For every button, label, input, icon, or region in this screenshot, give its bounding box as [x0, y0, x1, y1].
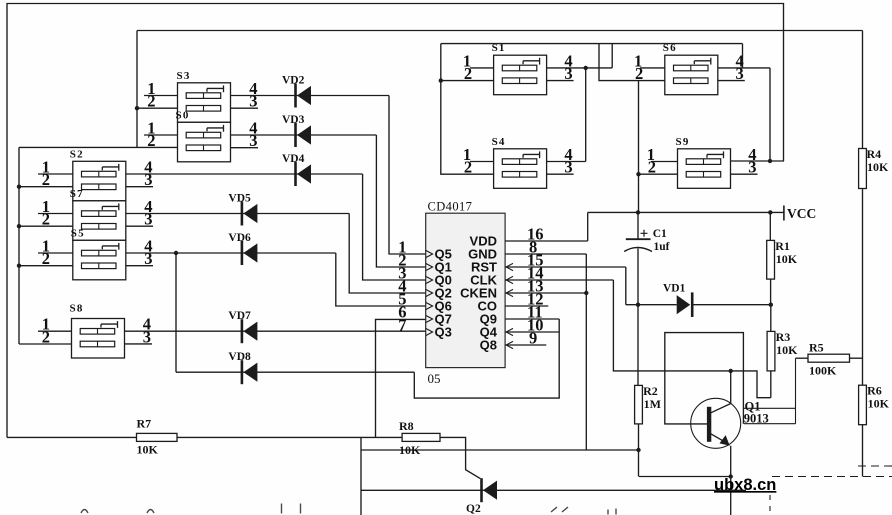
wire IC pin6 (Q7) down to R8 node: [376, 319, 426, 437]
svg-text:05: 05: [428, 371, 441, 386]
wire rail tap down to S6 pin4 row: [742, 44, 744, 68]
wire S9 pin1 stub: [651, 161, 678, 163]
svg-text:2: 2: [42, 170, 50, 189]
svg-text:VD3: VD3: [282, 114, 305, 126]
svg-text:1M: 1M: [644, 397, 661, 411]
wire down to S4 pin4: [585, 68, 587, 162]
wire IC pin10 (Q4): [505, 331, 559, 333]
svg-text:C1: C1: [653, 228, 667, 240]
wire R4 bottom to R5/R6 node: [862, 189, 864, 386]
wire pin16 VDD: [505, 240, 588, 242]
pin 3 arrow and label Q0: [426, 276, 433, 283]
wire reset node to VD1 anode: [626, 304, 677, 306]
switch S7: [73, 201, 126, 241]
wire R7 to R8: [177, 436, 402, 438]
svg-text:Q8: Q8: [480, 337, 497, 352]
junction R1 / VCC rail: [768, 210, 772, 214]
svg-text:10K: 10K: [776, 343, 798, 357]
svg-text:VD2: VD2: [282, 75, 305, 87]
wire R1 bottom: [770, 279, 772, 305]
wire pin12 CO stub: [505, 305, 548, 307]
wire S0 pin3 stub: [231, 147, 259, 149]
wire S4 pin1 stub: [470, 161, 494, 163]
junction S7 pin2 / left rail: [17, 224, 21, 228]
diode VD4: [296, 162, 312, 186]
wire S0 pin1 stub: [144, 134, 178, 136]
resistor R7: [137, 433, 178, 441]
svg-text:10K: 10K: [868, 397, 890, 411]
svg-text:VD1: VD1: [663, 283, 686, 295]
wire VD1 cathode to R1/R3 node: [692, 304, 771, 306]
junction S1 pin2 / rail: [439, 78, 443, 82]
wire Q1 emitter down: [730, 446, 732, 515]
junction S6/S9 pin4: [768, 159, 772, 163]
pin 2 arrow and label Q1: [426, 263, 433, 270]
wire S0 pin2 row to left rail: [19, 146, 178, 148]
resistor R5: [808, 354, 850, 362]
svg-text:S5: S5: [71, 227, 85, 239]
wire S6 pin3 stub: [718, 80, 745, 82]
wire rail y=43.6 over S1..S6: [441, 43, 743, 45]
junction CKEN / GND column: [584, 291, 588, 295]
svg-text:VD4: VD4: [282, 153, 305, 165]
svg-text:S3: S3: [177, 70, 191, 82]
wire R4 top: [862, 31, 864, 149]
wire S7 pin4 to VD5 to corner: [126, 213, 349, 215]
svg-text:R1: R1: [775, 239, 790, 253]
svg-text:100K: 100K: [809, 364, 837, 378]
svg-text:2: 2: [42, 249, 50, 268]
wire R6 bottom: [862, 425, 864, 477]
svg-text:Q2: Q2: [466, 503, 481, 515]
wire pin15 RST: [505, 266, 626, 268]
wire reset node down to R2: [637, 305, 639, 386]
svg-text:S7: S7: [70, 188, 84, 200]
wire S3 pin3 stub: [231, 107, 259, 109]
wire VD6 net down to IC pin5: [336, 253, 426, 306]
diode VD3: [296, 123, 312, 147]
svg-text:R7: R7: [137, 417, 152, 431]
pin 7 arrow and label Q3: [426, 328, 433, 335]
wire label box around 9013: [744, 358, 796, 424]
svg-text:10K: 10K: [776, 252, 798, 266]
wire tap down to bottom rail and off-page: [360, 437, 362, 515]
switch S6: [665, 55, 718, 94]
pin 4 arrow and label Q2: [426, 289, 433, 296]
resistor R3: [767, 331, 775, 371]
switch S5: [73, 240, 126, 279]
wire column S6 pin2 down to VCC rail: [638, 81, 640, 213]
svg-text:10K: 10K: [137, 443, 159, 457]
resistor R8: [402, 433, 440, 441]
wire VD3 net down to IC pin2: [376, 135, 425, 267]
wire S2 pin4 to VD4 to corner: [126, 173, 363, 175]
wire S8 pin1 stub: [38, 330, 72, 332]
svg-text:VD6: VD6: [228, 232, 251, 244]
wire S9 pin2: [639, 173, 678, 175]
svg-text:R3: R3: [776, 330, 791, 344]
svg-text:R5: R5: [809, 341, 824, 355]
svg-text:2: 2: [147, 92, 155, 111]
svg-text:10K: 10K: [399, 443, 421, 457]
svg-text:VD5: VD5: [228, 193, 251, 205]
wire S5 pin1 stub: [38, 252, 73, 254]
wire left rail x=19: [18, 147, 20, 344]
switch S0: [178, 122, 231, 162]
wire R3 bottom: [770, 371, 772, 398]
wire Q1 base feedback loop: [665, 333, 744, 424]
wire Q1 collector up to CLK/R3 net: [730, 371, 732, 404]
wire pin13 CKEN to GND column: [505, 292, 586, 294]
wire dashed fragment near right edge: [858, 465, 892, 467]
svg-text:7: 7: [398, 316, 406, 335]
junction S5 pin2 / left rail: [17, 264, 21, 268]
svg-text:VCC: VCC: [787, 206, 816, 221]
wire S6 pin4: [718, 67, 770, 69]
wire rail down to S6 pin2: [599, 44, 665, 81]
svg-text:10K: 10K: [867, 160, 889, 174]
wire dashed rail to R6 column and page edge: [772, 476, 892, 478]
wire C1 top: [637, 212, 639, 239]
diode VD1: [677, 292, 693, 317]
svg-text:CD4017: CD4017: [428, 200, 473, 214]
junction emitter / gnd rail: [729, 474, 733, 478]
switch S4: [494, 149, 547, 189]
pin input arrow: [506, 276, 513, 283]
junction S3 pin2 / x137: [135, 106, 139, 110]
wire border to R7: [7, 436, 137, 438]
svg-text:2: 2: [147, 131, 155, 150]
diode Q2: [482, 478, 498, 502]
wire VD8 row: [176, 371, 414, 373]
junction reset node: [636, 303, 640, 307]
svg-text:Q3: Q3: [435, 324, 452, 339]
wire S5 pin2: [19, 265, 73, 267]
svg-text:1uf: 1uf: [654, 241, 670, 253]
wire S8 pin4 through VD7 to IC pin7: [125, 330, 426, 332]
wire S3 pin4 to VD2 to corner: [231, 95, 390, 97]
svg-text:R8: R8: [399, 419, 414, 433]
pin 1 arrow and label Q5: [426, 250, 433, 257]
junction C1 / VCC rail: [636, 210, 640, 214]
wire vertical x=137: [136, 31, 138, 148]
junction R1/R3 node: [769, 303, 773, 307]
wire S1 pin3 stub: [547, 80, 574, 82]
switch S3: [178, 83, 231, 123]
VCC symbol: [784, 206, 816, 222]
wire S1 pin2: [441, 80, 494, 82]
wire S9 pin3 stub: [731, 173, 758, 175]
diode VD6: [242, 241, 258, 265]
wire top rail to R4: [137, 30, 863, 32]
wire S8 pin2: [19, 343, 72, 345]
transistor Q1 9013: [691, 398, 741, 448]
wire S5 pin3 stub: [126, 265, 153, 267]
svg-text:S4: S4: [492, 136, 506, 148]
wire S7 pin1 stub: [38, 213, 73, 215]
switch S2: [73, 161, 126, 201]
wire VD2 net down to IC pin1: [389, 96, 426, 255]
switch S8: [72, 319, 125, 359]
wire pin9 Q8 stub: [505, 344, 546, 346]
switch S1: [494, 55, 547, 94]
wire GND column down: [585, 254, 587, 450]
svg-text:R6: R6: [867, 384, 882, 398]
pin input arrow: [506, 289, 513, 296]
wire S8 pin3 stub: [125, 343, 153, 345]
svg-text:ubx8.cn: ubx8.cn: [714, 476, 776, 494]
resistor R6: [859, 385, 867, 425]
wire S2 pin3 stub: [126, 186, 153, 188]
junction R2 bottom / GND link: [636, 448, 640, 452]
wire S6 pin1 stub: [640, 67, 665, 69]
wire S3 pin1 stub: [144, 95, 178, 97]
resistor R4: [859, 149, 867, 189]
wire VD4 net down to IC pin3: [363, 174, 426, 280]
wire S1/S4 pin2 rail down to S4: [441, 44, 494, 175]
wire S1 pin1 stub: [470, 67, 494, 69]
wire RST down to reset node: [625, 267, 627, 305]
junction S5 pin4 / VD8 branch: [174, 251, 178, 255]
wire R3 top: [770, 305, 772, 332]
svg-text:VD8: VD8: [228, 351, 251, 363]
wire dashed fragment below watermark: [769, 495, 771, 515]
pin input arrow: [506, 328, 513, 335]
wire bottom rail with Q2: [361, 489, 746, 491]
diode VD2: [296, 84, 312, 108]
wire GND link across (through R8 value label): [361, 449, 639, 451]
wire S9 pin4: [731, 160, 785, 162]
svg-text:2: 2: [42, 327, 50, 346]
resistor R1: [767, 240, 775, 279]
wire VDD up to VCC rail: [587, 212, 589, 241]
wire S1 pin4 up to rail: [611, 44, 613, 68]
wire C1 bottom to reset node: [637, 249, 639, 305]
svg-text:S9: S9: [676, 136, 690, 148]
svg-text:S2: S2: [70, 148, 84, 160]
wire S4 pin3 stub: [547, 173, 574, 175]
wire S2 pin2: [19, 186, 73, 188]
junction S9 pin2 / column: [636, 172, 640, 176]
resistor R2: [635, 385, 643, 424]
pin 6 arrow and label Q7: [426, 315, 433, 322]
diode VD7: [242, 319, 258, 343]
wire S5 pin4 to VD6 to corner: [126, 252, 336, 254]
wire S4 pin4: [547, 161, 586, 163]
wire IC pin11 (Q9): [505, 318, 559, 320]
switch S9: [678, 149, 731, 189]
svg-text:R4: R4: [867, 147, 882, 161]
wire VD8 branch down: [175, 253, 177, 372]
svg-text:S8: S8: [70, 303, 84, 315]
wire R2-bottom rail right: [639, 476, 731, 478]
wire VCC rail: [588, 211, 784, 213]
wire S0 pin4 to VD3 to corner: [231, 134, 377, 136]
wire S3 pin2: [137, 107, 178, 109]
IC U1 CD4017 body: [426, 213, 505, 367]
wire S7 pin3 stub: [126, 225, 153, 227]
wire R8 right drop to Q2: [440, 437, 480, 478]
svg-text:R2: R2: [643, 384, 658, 398]
diode VD5: [242, 202, 258, 226]
wire R5 left: [796, 357, 809, 359]
wire CLK net to R3 bottom: [613, 280, 770, 398]
pin input arrow: [506, 263, 513, 270]
pin 5 arrow and label Q6: [426, 302, 433, 309]
wire VD5 net down to IC pin4: [349, 214, 426, 294]
wire S6 pin4 down to S9 pin4: [769, 68, 771, 161]
junction collector / CLK net: [729, 369, 733, 373]
wire R5 right to R4/R6 column: [850, 357, 863, 359]
wire pin8 GND: [505, 253, 586, 255]
wire border net (S-matrix common, top/left loop): [7, 4, 784, 438]
cut-off glyph fragments at bottom edge: [81, 504, 616, 515]
wire S7 pin2: [19, 225, 73, 227]
capacitor C1: [624, 230, 652, 252]
wire S2 pin1 stub: [38, 173, 73, 175]
svg-text:S0: S0: [176, 109, 190, 121]
svg-text:VD7: VD7: [228, 310, 251, 322]
wire pin14 CLK: [505, 279, 613, 281]
svg-text:2: 2: [42, 210, 50, 229]
pin input arrow: [506, 341, 513, 348]
wire R1 top: [769, 212, 771, 240]
wire R2 bottom: [638, 424, 640, 477]
wire VD8 net to IC pins 11/10: [414, 319, 559, 398]
wire S1 pin4: [547, 67, 613, 69]
diode VD8: [242, 360, 258, 384]
junction S2 pin2 / left rail: [17, 185, 21, 189]
junction S1 pin4 / S4 branch: [584, 66, 588, 70]
